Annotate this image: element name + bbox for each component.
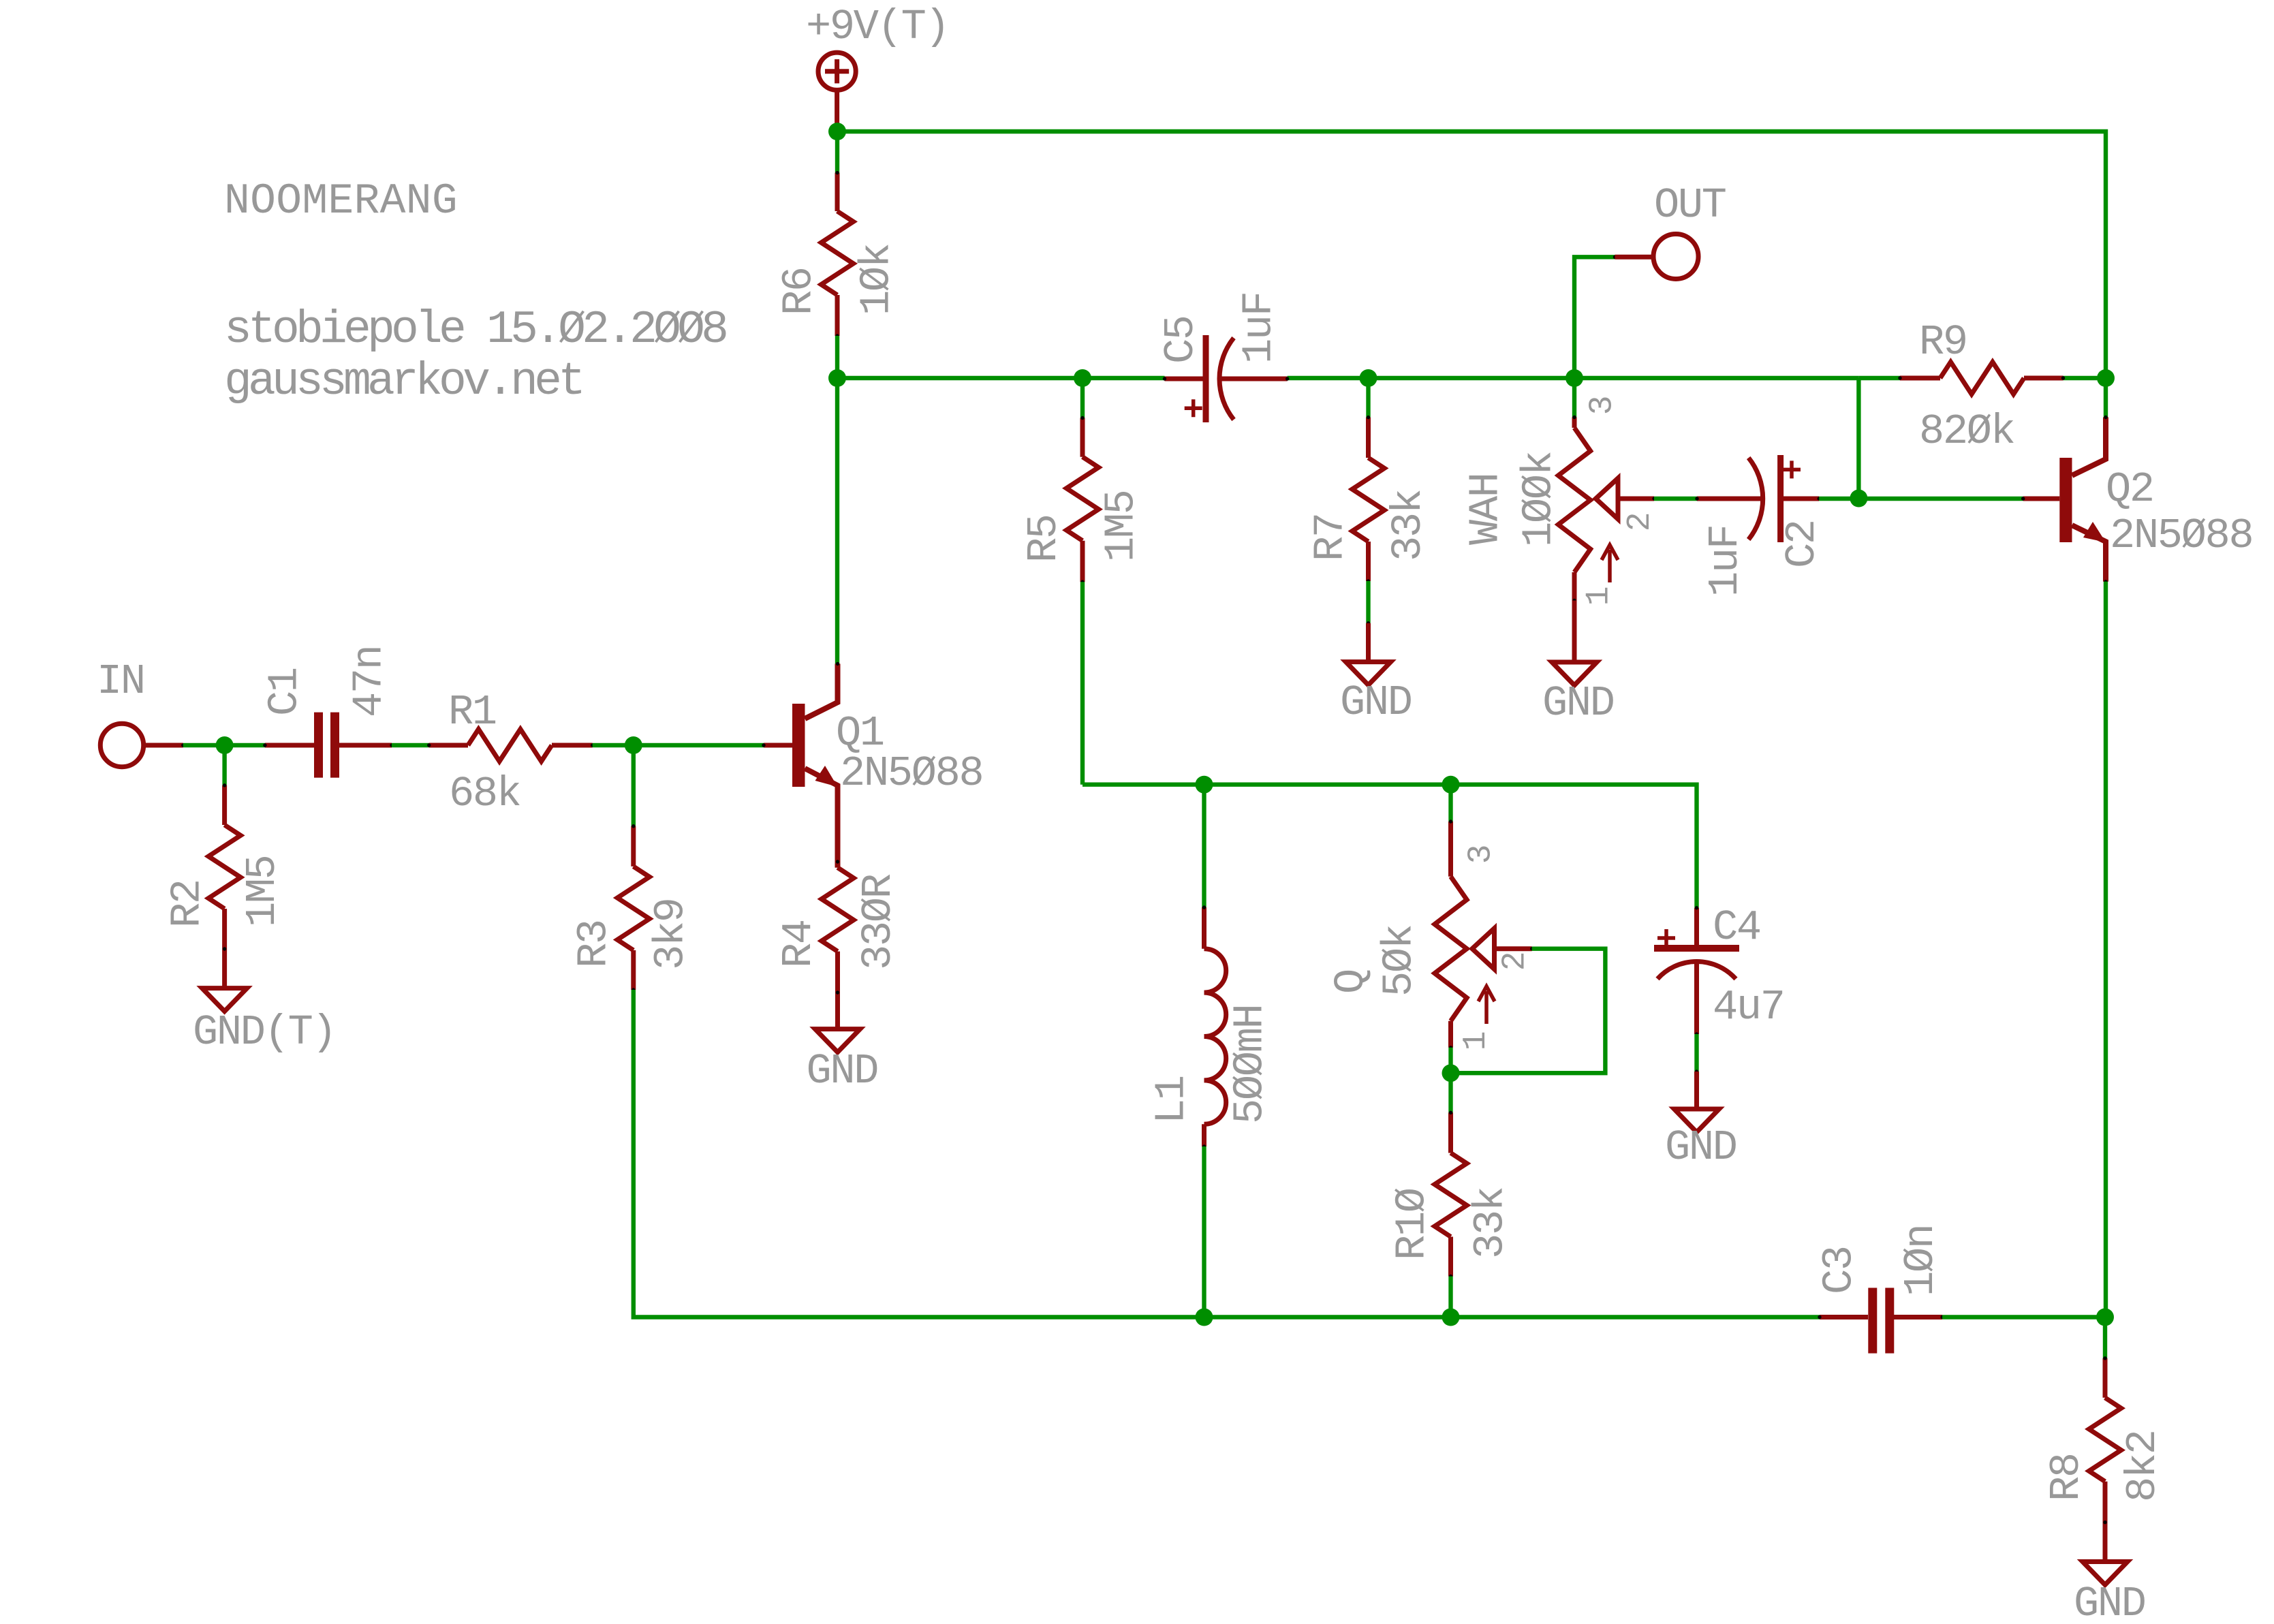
junction Q2 emitter node — [2096, 1309, 2114, 1326]
ground below R4 — [815, 1029, 860, 1052]
R9 right pin — [2024, 376, 2063, 381]
svg-text:C3: C3 — [1816, 1247, 1864, 1294]
wire WAH wiper to C2 — [1654, 497, 1697, 501]
svg-text:33k: 33k — [1467, 1187, 1515, 1259]
L1 top pin — [1202, 907, 1206, 949]
junction base node — [625, 736, 642, 754]
C4 bottom pin — [1694, 962, 1699, 1034]
svg-text:5Øk: 5Øk — [1375, 925, 1424, 997]
svg-text:2: 2 — [1497, 953, 1534, 971]
Q1 base pin — [764, 743, 792, 748]
ground GND(T) below R2 — [202, 988, 247, 1012]
wire R5 bottom to mid bus — [1080, 582, 1085, 784]
R8 top pin — [2103, 1358, 2108, 1398]
svg-text:1uF: 1uF — [1701, 525, 1749, 597]
pad IN circle — [100, 723, 143, 766]
wire C2 to Q2 base — [1819, 497, 2023, 501]
svg-text:1: 1 — [1581, 587, 1618, 606]
capacitor C3 — [1873, 1288, 1890, 1354]
wire to Q pot pin3 — [1448, 785, 1452, 822]
R1 left pin — [429, 743, 468, 748]
GND pin below C4 — [1694, 1072, 1699, 1109]
wire IN to C1 — [183, 743, 265, 747]
resistor R9 — [1940, 362, 2024, 394]
junction R6/Q1 collector node — [828, 369, 846, 387]
svg-text:1uF: 1uF — [1234, 292, 1283, 364]
Q pot pin 3 stub — [1448, 822, 1453, 877]
capacitor C4 — [1654, 945, 1739, 952]
resistor R6 — [821, 211, 853, 295]
potentiometer Q 50k — [1435, 877, 1467, 1021]
resistor R1 — [468, 729, 552, 761]
Q pot adjust arrow — [1478, 986, 1495, 1024]
WAH adjust arrow — [1602, 545, 1618, 582]
R10 top pin — [1448, 1112, 1453, 1153]
capacitor C5 — [1203, 335, 1209, 422]
capacitor C2 left pin — [1697, 497, 1764, 501]
R5 top pin — [1080, 418, 1085, 457]
svg-text:+9V(T): +9V(T) — [806, 3, 948, 51]
svg-text:GND(T): GND(T) — [193, 1008, 335, 1057]
svg-text:C1: C1 — [261, 668, 309, 716]
svg-text:R2: R2 — [163, 880, 212, 928]
OUT pad pin — [1615, 255, 1654, 260]
wire Q pot wiper loop to pin1 — [1451, 949, 1606, 1074]
GND pin of R7 ground — [1366, 623, 1371, 662]
capacitor C5 right pin — [1220, 377, 1288, 381]
junction Q2 collector node — [2097, 369, 2115, 387]
wire down to R2 — [222, 745, 226, 785]
junction Q pot top — [1442, 776, 1460, 794]
capacitor C3 left pin — [1820, 1315, 1868, 1319]
wire collector node to C5 — [837, 376, 1165, 380]
svg-text:1: 1 — [1458, 1032, 1495, 1050]
svg-text:NOOMERANG: NOOMERANG — [224, 177, 458, 225]
resistor R10 — [1435, 1153, 1467, 1237]
capacitor C2 — [1749, 458, 1763, 540]
svg-text:R1: R1 — [448, 688, 496, 736]
R8 bottom pin + GND pin — [2103, 1482, 2108, 1562]
WAH wiper arrow — [1595, 478, 1618, 519]
svg-text:3: 3 — [1463, 846, 1500, 864]
svg-text:GND: GND — [1542, 679, 1614, 728]
R4 bottom pin + GND pin — [835, 952, 840, 1029]
resistor R2 — [208, 825, 240, 909]
svg-text:4u7: 4u7 — [1713, 983, 1784, 1031]
capacitor C1 — [319, 713, 335, 778]
potentiometer WAH 100k — [1558, 428, 1590, 572]
svg-text:Q2: Q2 — [2106, 465, 2153, 514]
svg-text:GND: GND — [1340, 678, 1412, 727]
wire down to Q2 base node — [1856, 378, 1860, 499]
wire to R9 left — [1858, 376, 1900, 380]
supply pin — [835, 90, 839, 131]
ground below R7 — [1346, 662, 1391, 685]
wire to R7 — [1366, 378, 1370, 418]
junction R5 top — [1074, 369, 1091, 387]
svg-text:GND: GND — [2074, 1580, 2145, 1624]
resistor R7 — [1352, 458, 1384, 542]
transistor Q1 2N5088 — [792, 704, 805, 787]
wire R7 to GND — [1366, 581, 1370, 623]
svg-text:R8: R8 — [2042, 1454, 2091, 1501]
svg-text:R6: R6 — [775, 268, 824, 315]
junction WAH/OUT node — [1566, 369, 1583, 387]
svg-text:1M5: 1M5 — [1097, 490, 1145, 562]
R3 bottom pin — [631, 950, 636, 990]
svg-text:R7: R7 — [1307, 514, 1355, 561]
svg-text:82Øk: 82Øk — [1919, 407, 2014, 456]
plus mark C4 — [1657, 929, 1675, 947]
junction R7 top — [1360, 369, 1377, 387]
svg-text:1Øk: 1Øk — [853, 244, 901, 315]
IN pad pin — [144, 743, 183, 748]
plus mark C5 — [1185, 399, 1202, 417]
L1 bottom pin — [1202, 1124, 1206, 1146]
resistor R8 — [2089, 1398, 2121, 1482]
resistor R5 — [1066, 457, 1098, 541]
svg-text:2: 2 — [1622, 514, 1659, 532]
svg-text:C4: C4 — [1713, 903, 1760, 952]
R6 bottom pin — [835, 295, 840, 336]
R4 top pin — [835, 827, 840, 868]
capacitor C1 right pin — [339, 743, 392, 748]
svg-text:gaussmarkov.net: gaussmarkov.net — [224, 356, 582, 408]
WAH wiper pin — [1618, 497, 1654, 501]
capacitor C1 left pin — [265, 743, 314, 748]
svg-text:2N5Ø88: 2N5Ø88 — [840, 749, 982, 798]
R1 right pin — [552, 743, 593, 748]
wire pin1 node to R10 — [1448, 1048, 1452, 1113]
svg-text:stobiepole 15.Ø2.2ØØ8: stobiepole 15.Ø2.2ØØ8 — [224, 304, 726, 356]
wire to OUT pad — [1574, 257, 1615, 378]
svg-text:47n: 47n — [345, 646, 394, 717]
svg-text:Q: Q — [1327, 970, 1375, 994]
svg-text:2N5Ø88: 2N5Ø88 — [2110, 512, 2252, 560]
ground below R8 — [2083, 1562, 2128, 1585]
wire to L1 — [1202, 785, 1206, 907]
svg-text:OUT: OUT — [1654, 181, 1726, 230]
wire R3 to bottom bus — [634, 990, 1820, 1317]
GND pin of WAH ground — [1572, 601, 1577, 663]
R7 bottom pin — [1366, 542, 1371, 581]
wire Q2 emitter down to bus — [2104, 582, 2108, 1317]
svg-text:8k2: 8k2 — [2119, 1431, 2167, 1502]
supply +9V(T) symbol — [818, 52, 856, 90]
plus mark C2 — [1783, 460, 1801, 478]
svg-text:5ØØmH: 5ØØmH — [1226, 1005, 1275, 1124]
inductor L1 500mH — [1204, 949, 1226, 1125]
ground below WAH — [1552, 662, 1597, 685]
svg-text:C5: C5 — [1157, 316, 1205, 364]
wire R6 to collector node — [835, 336, 839, 378]
svg-text:3: 3 — [1585, 397, 1621, 416]
svg-text:GND: GND — [807, 1047, 878, 1095]
svg-text:GND: GND — [1665, 1123, 1736, 1172]
wire to WAH pin3 — [1572, 378, 1576, 418]
Q pot pin 1 stub — [1448, 1021, 1453, 1048]
junction L1 bottom bus — [1196, 1309, 1213, 1326]
wire C3 to R8 node — [1942, 1315, 2105, 1319]
wire collector node down to Q1 — [835, 378, 839, 663]
resistor R3 — [617, 866, 649, 950]
pad OUT circle — [1653, 234, 1698, 279]
R6 top pin — [835, 173, 840, 211]
Q2 base pin — [2023, 497, 2060, 501]
wire C4 to GND — [1694, 1034, 1698, 1072]
svg-text:C2: C2 — [1778, 520, 1826, 568]
R2 top pin — [222, 785, 227, 825]
svg-text:33ØR: 33ØR — [854, 874, 903, 970]
svg-text:L1: L1 — [1148, 1076, 1196, 1124]
svg-text:IN: IN — [97, 657, 144, 706]
R5 bottom pin — [1080, 541, 1085, 582]
svg-text:33k: 33k — [1384, 490, 1433, 561]
capacitor C3 right pin — [1894, 1315, 1942, 1319]
svg-text:R9: R9 — [1919, 318, 1967, 366]
R3 top pin — [631, 826, 636, 866]
svg-text:R1Ø: R1Ø — [1388, 1188, 1437, 1260]
svg-text:WAH: WAH — [1462, 473, 1510, 545]
svg-text:1Øn: 1Øn — [1897, 1225, 1945, 1296]
wire top power bus — [837, 131, 2106, 378]
C4 top pin — [1694, 908, 1699, 945]
junction R9 feedback node — [1850, 490, 1867, 507]
wire to R6 top — [835, 131, 839, 173]
junction L1 top — [1196, 776, 1213, 794]
junction input node — [216, 736, 234, 754]
svg-text:R4: R4 — [775, 920, 823, 968]
wire R10 to bottom bus — [1448, 1277, 1452, 1317]
wire to Q2 collector pin — [2104, 378, 2108, 418]
transistor Q2 2N5088 — [2059, 458, 2072, 542]
svg-text:1ØØk: 1ØØk — [1515, 452, 1563, 547]
junction Q pot pin1 node — [1442, 1064, 1460, 1082]
wire C5 to R9 corner — [1288, 376, 1859, 380]
junction +9V node — [828, 123, 846, 140]
ground below C4 — [1675, 1109, 1719, 1132]
wire R9 right to Q2 collector node — [2063, 376, 2106, 380]
capacitor C5 left pin — [1165, 377, 1203, 381]
resistor R4 — [822, 868, 854, 952]
svg-text:68k: 68k — [449, 770, 520, 818]
WAH pin 3 stub — [1572, 418, 1577, 428]
R9 left pin — [1900, 376, 1940, 381]
WAH pin 1 stub — [1572, 572, 1577, 601]
R2 bottom pin + GND(T) pin — [222, 909, 227, 988]
svg-text:1M5: 1M5 — [238, 856, 287, 927]
wire to R5 top — [1080, 378, 1085, 418]
svg-text:3k9: 3k9 — [647, 899, 696, 970]
wire down to R3 — [632, 745, 636, 826]
wire mid bus R5 to C4 — [1083, 785, 1697, 908]
svg-text:R3: R3 — [570, 920, 619, 968]
wire down to R8 — [2103, 1317, 2107, 1358]
Q pot wiper arrow — [1472, 928, 1495, 969]
wire L1 to bottom bus — [1202, 1146, 1206, 1317]
wire C1 to R1 — [392, 743, 429, 747]
junction R10 bottom bus — [1442, 1309, 1460, 1326]
R7 top pin — [1366, 418, 1371, 458]
svg-text:R5: R5 — [1020, 515, 1068, 563]
capacitor C2 right pin — [1784, 497, 1819, 501]
R10 bottom pin — [1448, 1237, 1453, 1277]
Q pot wiper pin — [1495, 946, 1532, 951]
wire R1 to Q1 base — [593, 743, 764, 747]
